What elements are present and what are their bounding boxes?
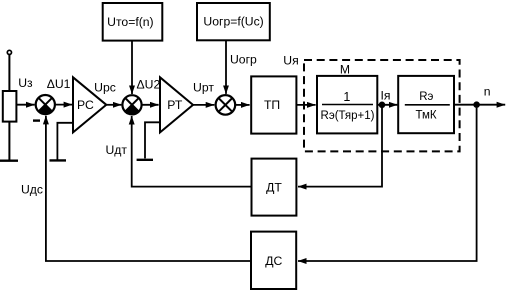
- svg-text:ΔU1: ΔU1: [47, 77, 71, 91]
- block ДТ: [252, 159, 297, 216]
- minus sign: [33, 119, 40, 121]
- svg-text:Uя: Uя: [283, 54, 298, 68]
- wire: [106, 104, 121, 106]
- ground: [0, 159, 18, 161]
- svg-text:РТ: РТ: [167, 98, 183, 112]
- wire: [46, 116, 251, 261]
- summing junction 1: [36, 95, 55, 114]
- potentiometer: [3, 91, 17, 122]
- wire: [57, 123, 73, 160]
- svg-text:Uогр: Uогр: [230, 52, 257, 66]
- block Rэ/ТмК: [398, 76, 454, 133]
- svg-text:Uогр=f(Uс): Uогр=f(Uс): [203, 15, 263, 29]
- wire: [8, 55, 10, 91]
- svg-text:1: 1: [343, 90, 350, 104]
- wire: [8, 122, 10, 160]
- summing junction 2: [122, 95, 141, 114]
- svg-text:ДС: ДС: [265, 254, 282, 268]
- ground: [137, 159, 153, 161]
- motor box М (dashed): [304, 60, 460, 151]
- svg-text:ДТ: ДТ: [266, 181, 282, 195]
- op-amp РС: [73, 77, 106, 132]
- wire: [225, 40, 227, 94]
- wire: [296, 104, 315, 106]
- wire: [131, 41, 133, 94]
- svg-text:ТмК: ТмК: [415, 110, 436, 122]
- op-amp РТ: [160, 77, 193, 132]
- input terminal: [7, 50, 11, 54]
- block 1/Rэ(Тяр+1): [317, 76, 377, 133]
- block Uогр=f(Uс): [197, 3, 270, 40]
- wire: [298, 108, 477, 261]
- wire: [235, 104, 249, 106]
- summing junction 3: [216, 95, 236, 115]
- svg-text:М: М: [340, 63, 350, 77]
- svg-text:Uто=f(n): Uто=f(n): [107, 15, 153, 29]
- wire: [55, 104, 72, 106]
- wire: [193, 104, 214, 106]
- svg-text:ΔU2: ΔU2: [137, 77, 161, 91]
- svg-text:Uдс: Uдс: [21, 183, 43, 197]
- block Uто=f(n): [103, 3, 163, 41]
- block ДС: [251, 232, 296, 289]
- ground: [50, 159, 67, 161]
- svg-text:Uрт: Uрт: [193, 81, 214, 95]
- svg-text:Uз: Uз: [18, 76, 33, 90]
- wire: [454, 104, 505, 106]
- wire: [145, 122, 160, 158]
- svg-text:Uдт: Uдт: [105, 143, 127, 157]
- wire: [132, 116, 252, 187]
- svg-text:ТП: ТП: [264, 98, 280, 112]
- svg-text:n: n: [484, 84, 491, 98]
- svg-text:Iя: Iя: [381, 88, 391, 102]
- svg-text:Rэ(Тяр+1): Rэ(Тяр+1): [321, 110, 375, 122]
- wire: [142, 104, 159, 106]
- svg-text:РС: РС: [77, 98, 94, 112]
- svg-text:Uрс: Uрс: [94, 81, 116, 95]
- wire: [377, 104, 397, 106]
- wire: [16, 104, 34, 106]
- svg-text:Rэ: Rэ: [419, 91, 433, 103]
- wire: [298, 108, 382, 187]
- node Iя: [379, 88, 391, 108]
- node n: [473, 84, 490, 108]
- block ТП: [251, 76, 296, 133]
